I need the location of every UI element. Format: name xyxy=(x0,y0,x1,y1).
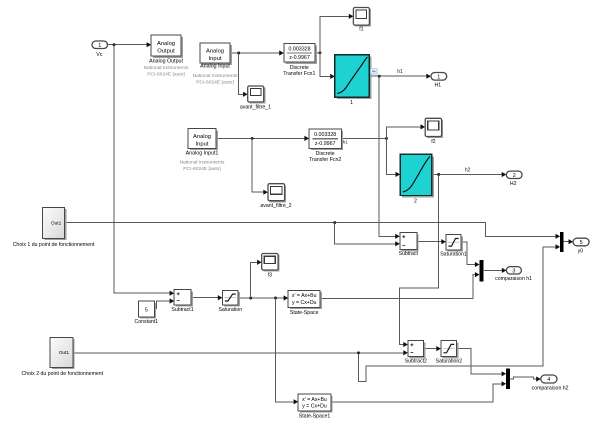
svg-text:State-Space1: State-Space1 xyxy=(299,414,331,420)
svg-text:2: 2 xyxy=(414,199,417,205)
svg-text:Subtract2: Subtract2 xyxy=(405,359,427,365)
svg-text:x' = Ax+Bu: x' = Ax+Bu xyxy=(292,293,317,299)
svg-text:y = Cx+Du: y = Cx+Du xyxy=(302,404,327,410)
svg-text:f3: f3 xyxy=(268,272,272,278)
svg-text:National Instruments: National Instruments xyxy=(144,65,189,71)
svg-text:0.003328: 0.003328 xyxy=(314,132,336,138)
svg-text:1: 1 xyxy=(98,43,101,49)
svg-text:2: 2 xyxy=(513,173,516,179)
svg-text:h2: h2 xyxy=(465,168,471,174)
svg-text:Analog: Analog xyxy=(206,49,224,55)
svg-text:Choix 1 du point de fonctionne: Choix 1 du point de fonctionnement xyxy=(13,242,95,248)
svg-text:z-0.9967: z-0.9967 xyxy=(315,141,336,147)
svg-text:Out1: Out1 xyxy=(51,221,62,227)
svg-text:Input: Input xyxy=(196,141,209,147)
svg-text:Analog Input: Analog Input xyxy=(200,64,230,70)
svg-text:PCI-6024E [auto]: PCI-6024E [auto] xyxy=(183,166,221,172)
svg-text:f1: f1 xyxy=(359,27,363,33)
svg-text:H1: H1 xyxy=(434,82,441,88)
svg-text:h1: h1 xyxy=(397,69,403,75)
svg-text:Analog Input1: Analog Input1 xyxy=(186,150,219,156)
svg-text:y = Cx+Du: y = Cx+Du xyxy=(292,300,317,306)
svg-text:PCI-6024E [auto]: PCI-6024E [auto] xyxy=(147,71,185,77)
svg-text:Vc: Vc xyxy=(96,52,102,58)
svg-text:Analog: Analog xyxy=(193,134,211,140)
svg-text:x' = Ax+Bu: x' = Ax+Bu xyxy=(302,397,327,403)
svg-text:0.003328: 0.003328 xyxy=(288,47,310,53)
svg-text:Transfer Fcn1: Transfer Fcn1 xyxy=(283,71,315,77)
svg-text:State-Space: State-Space xyxy=(290,310,319,316)
svg-text:h1: h1 xyxy=(343,140,349,145)
svg-text:comparaison h2: comparaison h2 xyxy=(532,385,569,391)
svg-text:Saturation1: Saturation1 xyxy=(440,251,467,257)
svg-text:z-0.9967: z-0.9967 xyxy=(289,55,310,61)
svg-text:3: 3 xyxy=(512,268,515,274)
svg-text:Input: Input xyxy=(209,56,222,62)
svg-text:1: 1 xyxy=(437,74,440,80)
svg-text:Out1: Out1 xyxy=(59,350,70,356)
svg-text:Subtract: Subtract xyxy=(399,251,419,257)
svg-text:Saturation: Saturation xyxy=(218,307,242,313)
svg-text:PCI-6024E [auto]: PCI-6024E [auto] xyxy=(196,79,234,85)
svg-text:Analog: Analog xyxy=(157,41,175,47)
svg-text:Saturation2: Saturation2 xyxy=(436,359,463,365)
svg-text:f2: f2 xyxy=(431,139,435,145)
svg-text:avant_filtre_1: avant_filtre_1 xyxy=(240,104,271,110)
svg-text:avant_filtre_2: avant_filtre_2 xyxy=(260,203,291,209)
svg-text:National Instruments: National Instruments xyxy=(180,160,225,166)
svg-text:H2: H2 xyxy=(510,181,517,187)
svg-text:y0: y0 xyxy=(578,248,584,254)
svg-text:Transfer Fcn2: Transfer Fcn2 xyxy=(309,157,341,163)
svg-text:comparaison h1: comparaison h1 xyxy=(495,276,532,282)
svg-text:5: 5 xyxy=(145,307,148,313)
svg-text:5: 5 xyxy=(580,240,583,246)
svg-text:Analog Output: Analog Output xyxy=(149,58,183,64)
svg-text:National Instruments: National Instruments xyxy=(193,73,238,79)
svg-text:Subtract1: Subtract1 xyxy=(171,307,193,313)
svg-text:Output: Output xyxy=(157,49,175,55)
svg-text:1: 1 xyxy=(350,100,353,106)
svg-text:4: 4 xyxy=(547,377,550,383)
svg-text:Choix 2 du point de fonctionne: Choix 2 du point de fonctionnement xyxy=(21,371,103,377)
svg-text:Constant1: Constant1 xyxy=(134,319,158,325)
